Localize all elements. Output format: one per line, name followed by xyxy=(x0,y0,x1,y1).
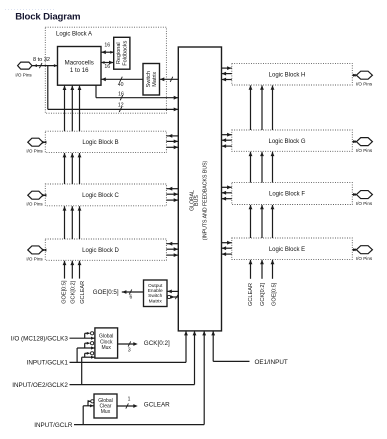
wire logic block D feedback to global bus 1 xyxy=(166,248,178,250)
svg-text:Switch: Switch xyxy=(148,293,162,299)
svg-text:Logic Block G: Logic Block G xyxy=(268,139,305,145)
wires global control signals block C to D gap xyxy=(64,206,66,239)
logic block A dotted outline xyxy=(45,27,166,113)
svg-text:Foldbacks: Foldbacks xyxy=(122,40,128,65)
svg-text:Regional: Regional xyxy=(116,42,122,64)
I/O pins hexagon B xyxy=(28,138,43,146)
macrocells box U-MC xyxy=(58,47,102,86)
wire I/O pins G to block xyxy=(352,141,356,143)
wire GCK[0:2] output xyxy=(118,343,136,345)
faint artifact dots top xyxy=(5,9,55,11)
svg-text:16: 16 xyxy=(104,43,110,49)
wires global control signals block G to H gap xyxy=(250,85,252,130)
global clock mux box xyxy=(95,328,118,358)
svg-text:1 to 16: 1 to 16 xyxy=(70,67,89,74)
logic block D dotted outline xyxy=(45,239,166,260)
global bus box xyxy=(178,47,221,331)
logic block C dotted outline xyxy=(45,184,166,206)
svg-text:GOE[0:5]: GOE[0:5] xyxy=(93,289,119,296)
wire GCLR riser into global bus xyxy=(203,331,205,425)
wires global control signal stubs into block E xyxy=(250,260,252,279)
svg-text:I/O Pins: I/O Pins xyxy=(26,256,43,261)
wire logic block G feedback to global bus 2 xyxy=(222,145,232,147)
switch matrix box xyxy=(143,64,160,96)
wire logic block C feedback to global bus 1 xyxy=(166,193,178,195)
wire GCLR riser to clear mux xyxy=(82,406,84,425)
wire regional foldbacks to macrocells (16) xyxy=(101,51,114,53)
wires global control signals block B to C gap xyxy=(64,153,66,184)
svg-text:I/O Pins: I/O Pins xyxy=(356,256,373,261)
wire logic block E feedback to global bus 1 xyxy=(222,247,232,249)
svg-text:I/O Pins: I/O Pins xyxy=(356,148,373,153)
wires global control signals block E to F gap xyxy=(250,205,252,238)
wire I/O pins E to block xyxy=(352,249,356,251)
wire logic block H feedback to global bus 1 xyxy=(222,73,232,75)
wire macrocells to regional foldbacks (16) xyxy=(101,62,114,64)
logic block F dotted outline xyxy=(232,183,352,205)
wire logic block F feedback to global bus 1 xyxy=(222,192,232,194)
svg-text:I/O (MC128)/GCLK3: I/O (MC128)/GCLK3 xyxy=(11,335,69,342)
wire global bus to logic block G xyxy=(222,134,232,136)
svg-text:INPUT/GCLR: INPUT/GCLR xyxy=(34,422,73,429)
svg-text:GCK[0:2]: GCK[0:2] xyxy=(71,280,77,303)
svg-text:INPUT/OE2/GCLK2: INPUT/OE2/GCLK2 xyxy=(12,382,68,389)
wire macrocells to global bus (16) xyxy=(95,85,97,98)
svg-text:GOE[0:5]: GOE[0:5] xyxy=(62,280,68,304)
svg-text:6: 6 xyxy=(130,294,133,300)
svg-text:Logic Block B: Logic Block B xyxy=(82,140,118,146)
svg-text:GCLEAR: GCLEAR xyxy=(144,402,170,409)
wires global control signal stubs into block D xyxy=(64,261,66,279)
wire global bus to logic block F xyxy=(222,186,232,188)
wire OESM GOE output (6) xyxy=(122,291,144,293)
svg-text:12: 12 xyxy=(118,103,124,109)
svg-text:Logic Block H: Logic Block H xyxy=(269,72,306,78)
wire I/O pins to macrocells, 8 to 32 xyxy=(32,65,58,67)
wire logic block B feedback to global bus 2 xyxy=(166,146,178,148)
svg-text:(INPUTS AND FEEDBACKS BUS): (INPUTS AND FEEDBACKS BUS) xyxy=(202,160,208,240)
wire GCLR inverted branch xyxy=(87,401,89,406)
svg-text:8 to 32: 8 to 32 xyxy=(33,57,50,63)
output enable switch matrix box xyxy=(144,280,168,307)
svg-text:Matrix: Matrix xyxy=(149,298,163,304)
wire GCLEAR output (1) xyxy=(117,405,136,407)
wire global bus to logic block E xyxy=(222,242,232,244)
regional foldbacks box xyxy=(114,37,130,69)
svg-text:Logic Block E: Logic Block E xyxy=(269,247,305,253)
svg-text:BUS: BUS xyxy=(194,195,200,206)
I/O pins hexagon D xyxy=(28,246,43,254)
svg-text:Logic Block D: Logic Block D xyxy=(82,248,119,254)
svg-text:1: 1 xyxy=(128,396,131,402)
I/O pins hexagon H xyxy=(356,71,372,79)
svg-text:I/O Pins: I/O Pins xyxy=(15,72,32,77)
wire logic block H feedback to global bus 2 xyxy=(222,79,232,81)
wire logic block D feedback to global bus 2 xyxy=(166,254,178,256)
logic block E dotted outline xyxy=(232,238,352,259)
svg-text:Matrix: Matrix xyxy=(152,71,158,86)
svg-text:Output: Output xyxy=(148,283,163,289)
svg-text:I/O Pins: I/O Pins xyxy=(26,149,43,154)
svg-text:GCLEAR: GCLEAR xyxy=(248,283,254,306)
svg-text:16: 16 xyxy=(104,64,110,70)
svg-text:OE1/INPUT: OE1/INPUT xyxy=(255,359,288,366)
logic block H dotted outline xyxy=(232,63,352,85)
wire I/O pins F to block xyxy=(352,194,356,196)
wire GCLK2 riser into global bus xyxy=(194,331,196,385)
svg-text:40: 40 xyxy=(118,82,124,88)
wire GCLK2 inverted branch xyxy=(84,353,86,357)
wire global bus to OESM xyxy=(167,290,178,292)
wire I/O pins B to block xyxy=(43,141,45,143)
svg-text:GOE[0:5]: GOE[0:5] xyxy=(272,282,278,306)
wire logic block C feedback to global bus 2 xyxy=(166,199,178,201)
wire OE1 riser into global bus xyxy=(212,331,214,362)
svg-text:I/O Pins: I/O Pins xyxy=(356,82,373,87)
I/O pins hexagon C xyxy=(28,191,43,199)
svg-text:Enable: Enable xyxy=(148,288,163,294)
svg-text:Block Diagram: Block Diagram xyxy=(15,12,80,23)
svg-text:Mux: Mux xyxy=(101,409,111,415)
svg-text:Logic Block C: Logic Block C xyxy=(82,193,119,199)
I/O pins hexagon G xyxy=(356,138,372,146)
wire GCLK1 riser into global bus xyxy=(185,331,187,363)
I/O pins hexagon E xyxy=(356,246,372,254)
svg-text:Logic Block F: Logic Block F xyxy=(269,192,305,198)
wires global control signals into macrocells A xyxy=(64,86,66,132)
svg-text:3: 3 xyxy=(128,347,131,353)
wire I/O pins to global bus (12) xyxy=(47,66,49,110)
logic block B dotted outline xyxy=(45,131,166,152)
logic block G dotted outline xyxy=(232,130,352,151)
svg-text:GCK[0:2]: GCK[0:2] xyxy=(144,340,170,347)
wire logic block F feedback to global bus 2 xyxy=(222,198,232,200)
global clear mux box xyxy=(94,394,117,418)
svg-text:Macrocells: Macrocells xyxy=(65,60,94,67)
svg-text:Logic Block A: Logic Block A xyxy=(56,32,92,38)
wires global control signals block F to G gap xyxy=(250,152,252,183)
svg-text:16: 16 xyxy=(118,91,124,97)
wire I/O pins D to block xyxy=(43,249,45,251)
wire OESM to global bus with bubble xyxy=(167,295,170,298)
wire logic block G feedback to global bus 1 xyxy=(222,139,232,141)
wire global bus to logic block B xyxy=(166,135,178,137)
wire logic block E feedback to global bus 2 xyxy=(222,253,232,255)
I/O pins hexagon F xyxy=(356,191,372,199)
wire GCLK1 inverted branch xyxy=(84,343,86,348)
wire switch matrix to macrocells (40) xyxy=(101,78,143,80)
wire GCLK2 riser to mux xyxy=(81,357,83,384)
wire I/O pins C to block xyxy=(43,194,45,196)
wire logic block B feedback to global bus 1 xyxy=(166,140,178,142)
svg-text:Mux: Mux xyxy=(101,345,111,351)
svg-text:I/O Pins: I/O Pins xyxy=(356,201,373,206)
svg-text:INPUT/GCLK1: INPUT/GCLK1 xyxy=(27,360,69,367)
wire global bus to logic block C xyxy=(166,188,178,190)
svg-text:I/O Pins: I/O Pins xyxy=(26,202,43,207)
wire I/O pins H to block xyxy=(352,74,356,76)
wire GCLK1 riser to mux xyxy=(76,348,78,362)
wire global bus to logic block D xyxy=(166,243,178,245)
wire GCLK3 inverted branch xyxy=(84,333,86,338)
wire global bus to switch matrix xyxy=(160,78,179,80)
wire OE1/INPUT horizontal xyxy=(213,360,249,362)
svg-text:GCK[0:2]: GCK[0:2] xyxy=(260,283,266,306)
I/O pins hexagon A xyxy=(18,62,32,69)
wire global bus to logic block H xyxy=(222,67,232,69)
svg-text:GCLEAR: GCLEAR xyxy=(80,281,86,304)
